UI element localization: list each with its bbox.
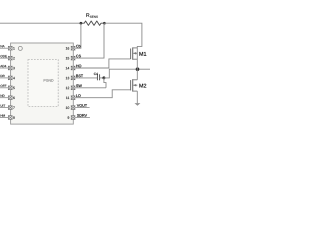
pin 9 SDRV [68,114,90,119]
pin 14 HO [66,65,81,70]
pin 3 ADJ [0,65,15,70]
wire pin16 Cb to node A [75,23,81,48]
pin 10 VOUT [66,104,90,109]
PGND exposed pad (dashed) [28,60,58,107]
wire rail to M1 drain [104,23,141,48]
pin 12 SW [66,84,82,89]
wire M2 source down [136,91,138,103]
capacitor C4 [94,73,100,81]
pin 8 HM [0,114,15,119]
pin 6 GND [0,95,15,100]
transistor M1 [131,47,147,69]
wire pin12 SW [75,87,106,89]
pin 4 DR [0,75,15,80]
node B (RSENS right junction) [103,22,106,25]
wire node C to switch node [104,69,138,78]
pin 15 CS [66,55,81,60]
IC U1 body [11,43,74,124]
wire switch node to output (off right edge) [138,68,151,70]
wire pin11 LO to M2 gate [75,90,130,98]
pin 5 OFF [0,85,15,90]
resistor RSENS [81,13,105,25]
wire pin13 BST to capacitor C4 [75,77,97,79]
pin 11 LO [66,94,81,99]
pin 16 Cb [66,45,81,51]
pin 1 indicator circle [18,46,22,50]
wire VIN top rail [0,22,81,24]
pin 13 BST [66,75,83,80]
output arrow [135,103,141,106]
transistor M2 [131,69,147,91]
node D (switch node junction) [136,67,140,71]
wire C4 to node C [100,77,104,79]
pin 2 MODE [0,55,15,60]
node A (RSENS left junction) [80,22,83,25]
pin 7 OUT [0,105,15,110]
wire pin15 CS to node B [75,23,104,58]
node C (bootstrap junction) [102,76,105,79]
pin 1 ENA [0,45,15,50]
wire pin14 HO to M1 gate [75,59,130,68]
wire node C dogleg to SW [104,78,106,88]
